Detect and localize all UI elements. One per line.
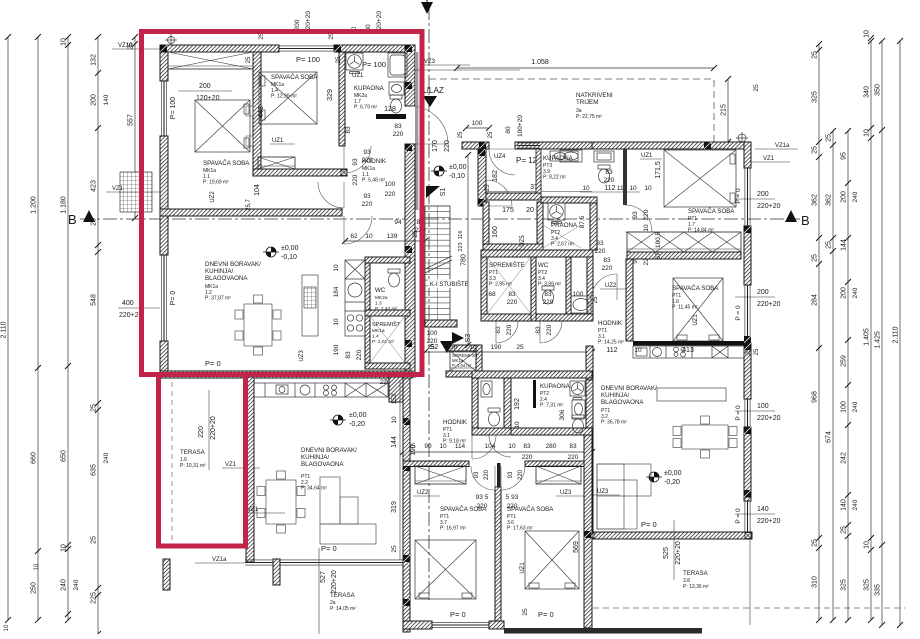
praona room: [590, 197, 597, 250]
svg-text:25: 25: [391, 545, 398, 553]
apt1 right exterior wall upper: [405, 45, 415, 106]
svg-text:S3: S3: [465, 334, 472, 343]
right dimension line col2a 362: [832, 131, 834, 620]
apt1 right exterior wall below entrance: [405, 144, 415, 377]
svg-text:200: 200: [841, 191, 848, 203]
svg-text:240: 240: [73, 579, 80, 590]
svg-text:220+20: 220+20: [675, 541, 682, 565]
bottom apt bottom wall left piece: [403, 621, 432, 629]
elevation marker apt2: [330, 415, 346, 425]
red highlight outline terrace: [159, 375, 246, 547]
bedroom divider wall bottom apt: [495, 487, 501, 628]
svg-text:25: 25: [754, 348, 760, 355]
svg-text:KUPAONA: KUPAONA: [540, 383, 571, 390]
stair label K-I STUBISTE: [428, 279, 474, 288]
stairwell treads: [425, 206, 450, 320]
svg-text:635: 635: [91, 464, 98, 476]
svg-text:284: 284: [812, 294, 819, 306]
svg-text:P= 0: P= 0: [450, 610, 466, 619]
left bedroom bed: [415, 540, 476, 599]
svg-text:25: 25: [91, 536, 98, 544]
svg-text:VZ1: VZ1: [225, 462, 237, 468]
apt1 entrance door opening arc: [410, 106, 448, 144]
svg-text:242: 242: [841, 452, 848, 464]
svg-text:220+20: 220+20: [757, 518, 781, 525]
svg-text:223: 223: [458, 242, 464, 251]
svg-text:WC: WC: [375, 287, 386, 294]
level survey symbol top-left: [165, 34, 177, 46]
washing machine apt1 bathroom: [346, 53, 363, 74]
svg-text:UZ3: UZ3: [560, 490, 572, 496]
svg-text:94: 94: [394, 219, 402, 226]
svg-text:220: 220: [352, 174, 359, 185]
svg-text:25: 25: [522, 608, 529, 616]
svg-text:310: 310: [812, 576, 819, 588]
svg-text:P = 0: P = 0: [735, 405, 742, 421]
svg-text:10: 10: [644, 185, 652, 192]
svg-text:220: 220: [522, 454, 533, 461]
bathroom bottom wall thick black: [376, 114, 406, 119]
elevation marker apt1 living: [263, 247, 279, 257]
svg-text:10: 10: [634, 347, 642, 354]
svg-text:10: 10: [439, 443, 447, 450]
svg-text:25: 25: [746, 348, 752, 355]
bottom apt bathroom bottom wall: [472, 428, 511, 435]
svg-text:557: 557: [128, 114, 135, 126]
red highlight outline main apartment: [142, 32, 423, 375]
wardrobe band bedroom2 apt1: [258, 157, 295, 169]
right building top wall segment 1: [462, 142, 489, 149]
svg-text:10: 10: [864, 30, 871, 38]
trijem dashed outline: [429, 79, 714, 142]
right wall window VZ1 upper: [745, 168, 750, 226]
svg-text:S1: S1: [440, 188, 447, 197]
svg-text:220: 220: [507, 503, 518, 510]
svg-text:VZ1: VZ1: [247, 507, 259, 513]
svg-text:525: 525: [663, 547, 670, 559]
bottom apt bathroom fixtures: [481, 381, 492, 397]
svg-text:UZ3: UZ3: [299, 350, 305, 362]
door arcs bottom apt bedrooms: [471, 466, 495, 490]
elevation marker right apt: [646, 472, 662, 482]
svg-text:280: 280: [546, 443, 557, 450]
door arcs hodnik bottom apt: [472, 435, 496, 459]
svg-text:20: 20: [526, 207, 534, 214]
bottom apt bedroom top wall left: [403, 461, 469, 467]
bottom apt bottom window left: [432, 622, 489, 627]
svg-text:-0,10: -0,10: [281, 254, 297, 261]
apt1 left exterior wall lower: [160, 341, 168, 377]
svg-text:25: 25: [336, 56, 342, 63]
svg-text:413: 413: [682, 347, 694, 354]
svg-text:83: 83: [394, 123, 402, 130]
svg-text:P= 100: P= 100: [170, 97, 177, 119]
svg-text:220: 220: [477, 503, 488, 510]
svg-text:93: 93: [352, 158, 359, 166]
svg-text:190: 190: [491, 344, 502, 351]
svg-text:UZ1: UZ1: [352, 73, 364, 79]
svg-text:200: 200: [841, 287, 848, 299]
svg-text:780: 780: [461, 254, 468, 266]
svg-text:140: 140: [757, 506, 769, 513]
svg-text:400: 400: [122, 300, 134, 307]
right dimension line col3 340/1.405: [870, 41, 872, 620]
lower bedroom left wall right-apt: [626, 259, 633, 341]
right dimension line col2 95/144/259/242: [847, 131, 849, 620]
svg-text:KUPAONA: KUPAONA: [354, 85, 385, 92]
svg-text:140: 140: [841, 499, 848, 511]
wc spremiste divider apt1: [365, 310, 410, 316]
svg-text:10: 10: [61, 38, 68, 46]
svg-text:PRAONA: PRAONA: [551, 222, 578, 229]
svg-text:1.425: 1.425: [875, 331, 882, 349]
svg-text:112: 112: [604, 185, 615, 192]
top dim line 1.058 trijem: [457, 67, 714, 69]
svg-text:UZ3: UZ3: [597, 489, 609, 495]
spremiste bottom wall apt1: [365, 363, 410, 369]
svg-text:80: 80: [505, 126, 512, 134]
svg-text:200: 200: [757, 191, 769, 198]
svg-text:10: 10: [864, 129, 871, 137]
svg-text:650: 650: [61, 450, 68, 462]
svg-text:VZ1a: VZ1a: [775, 143, 790, 149]
living room top wall: [160, 209, 342, 216]
bottom apt right wall: [584, 435, 592, 628]
toilet apt1 bathroom: [390, 95, 402, 113]
svg-text:220: 220: [507, 299, 518, 306]
right building top wall segment 3: [592, 142, 751, 149]
svg-text:1.180: 1.180: [61, 196, 68, 214]
svg-text:220: 220: [602, 265, 613, 272]
stair break line diagonal: [423, 256, 452, 274]
svg-text:100: 100: [757, 403, 769, 410]
svg-text:VZ3: VZ3: [424, 59, 436, 65]
horizontal wall under closet and praona: [481, 250, 593, 257]
wardrobe left bedroom: [415, 466, 466, 484]
svg-text:329: 329: [327, 89, 334, 101]
svg-text:220+20: 220+20: [210, 416, 217, 440]
svg-text:220: 220: [356, 349, 363, 360]
trellis grid block outside left wall: [120, 172, 152, 212]
svg-text:104: 104: [485, 443, 496, 450]
svg-text:P= 100: P= 100: [296, 55, 320, 64]
apt1 top wall window P=100: [279, 46, 334, 51]
axis line vertical dash-dot through entrance: [428, 6, 430, 600]
left dimension line 132/200/423/548/635/225: [97, 37, 99, 634]
closet room walls: [483, 202, 489, 250]
svg-text:2.110: 2.110: [893, 326, 900, 343]
dim 100 above entrance: [466, 127, 489, 129]
svg-text:240: 240: [852, 191, 859, 202]
bottom apt left wall: [403, 378, 410, 632]
svg-text:25: 25: [91, 404, 98, 412]
section marker B left: [83, 210, 95, 222]
svg-text:220: 220: [595, 248, 606, 255]
svg-text:83: 83: [605, 169, 613, 176]
svg-text:423: 423: [91, 180, 98, 192]
left dimension line 1.200/660/250: [37, 37, 39, 620]
svg-text:25: 25: [412, 230, 419, 238]
svg-text:190: 190: [410, 444, 417, 455]
svg-text:VZ1a: VZ1a: [212, 557, 227, 563]
svg-text:220+20: 220+20: [757, 301, 781, 308]
apt1 left exterior wall middle: [160, 136, 168, 255]
apt1 top wall corner cap: [160, 45, 167, 52]
svg-text:569: 569: [573, 541, 580, 553]
svg-text:67: 67: [655, 252, 662, 260]
svg-text:220: 220: [643, 209, 650, 220]
svg-text:P = 0: P = 0: [735, 305, 742, 321]
svg-text:184: 184: [333, 286, 340, 297]
svg-text:192: 192: [514, 398, 521, 410]
svg-text:144: 144: [391, 436, 398, 448]
svg-text:100: 100: [427, 330, 438, 337]
svg-text:240: 240: [852, 287, 859, 298]
steps shelf right living: [597, 464, 651, 529]
terrace apt1 dashed left edge: [171, 382, 173, 540]
apt2 terrace outline thin: [318, 548, 320, 634]
svg-text:P= 0: P= 0: [641, 520, 657, 529]
terrace apt1 right wall hatched: [246, 377, 254, 562]
svg-text:171,5: 171,5: [655, 161, 662, 179]
svg-text:220: 220: [604, 177, 615, 184]
svg-text:25: 25: [246, 56, 252, 63]
svg-text:UZ4: UZ4: [494, 154, 506, 160]
svg-text:2.110: 2.110: [1, 321, 8, 338]
left wall right-building upper: [478, 149, 486, 206]
svg-text:325: 325: [841, 579, 848, 591]
kupaona PT3 fixtures bath: [550, 151, 614, 162]
svg-text:362: 362: [812, 194, 819, 206]
svg-text:K-I STUBIŠTE: K-I STUBIŠTE: [430, 281, 469, 288]
svg-text:144: 144: [841, 239, 848, 251]
svg-text:25: 25: [826, 241, 833, 249]
svg-text:240: 240: [103, 452, 110, 463]
svg-text:5 93: 5 93: [506, 494, 519, 501]
svg-text:-0,10: -0,10: [449, 173, 465, 180]
svg-text:250: 250: [31, 582, 38, 594]
dim line 62/10/139 above kitchen: [345, 240, 425, 242]
svg-text:-0,20: -0,20: [349, 421, 365, 428]
svg-text:259: 259: [841, 355, 848, 367]
left wall door gap arc UZ4 inner: [486, 180, 512, 206]
svg-text:10: 10: [643, 224, 650, 232]
svg-text:83: 83: [345, 351, 352, 359]
svg-text:83: 83: [544, 291, 552, 298]
wall above closet 175/20: [486, 193, 541, 200]
svg-text:220: 220: [198, 426, 205, 438]
svg-text:220: 220: [506, 324, 513, 335]
apt2 bottom wall pillar left: [163, 559, 170, 590]
dim line 25/90/10/114/104... y452: [403, 451, 592, 453]
svg-text:340: 340: [864, 86, 871, 98]
dining table right apt: [673, 416, 737, 458]
svg-text:P= 0: P= 0: [205, 359, 221, 368]
svg-text:10: 10: [34, 563, 40, 570]
kitchen counter right apt: [633, 346, 744, 358]
svg-text:306: 306: [559, 409, 566, 420]
svg-text:220: 220: [385, 191, 396, 198]
svg-text:VZ1: VZ1: [763, 156, 775, 162]
right living room left wall: [586, 346, 593, 380]
wc left wall apt1: [365, 263, 370, 369]
svg-text:93: 93: [363, 193, 371, 200]
svg-text:P= 100: P= 100: [362, 60, 386, 69]
svg-text:93: 93: [508, 471, 514, 478]
right dimension line col4 350/1.425/335: [881, 41, 883, 625]
bed top bedroom right apt: [664, 150, 736, 207]
svg-text:25: 25: [485, 184, 491, 191]
svg-text:HODNIK: HODNIK: [598, 320, 623, 327]
svg-text:100+20: 100+20: [517, 115, 524, 137]
kupaona PT2 fixtures: [570, 381, 585, 400]
kitchen island apt1: [302, 275, 318, 336]
svg-text:25: 25: [841, 526, 848, 534]
svg-text:10: 10: [508, 443, 516, 450]
svg-text:25: 25: [826, 134, 833, 142]
svg-text:87,5: 87,5: [579, 215, 586, 228]
apt1 right wall gray insulation band: [415, 52, 418, 210]
svg-text:B: B: [68, 212, 77, 227]
bedroom divider wall apt1: [253, 52, 261, 176]
svg-text:527: 527: [320, 571, 327, 583]
svg-text:152: 152: [391, 393, 398, 404]
svg-text:62: 62: [350, 233, 358, 240]
elevation marker entrance: [431, 166, 447, 176]
apt1 left wall window P=100 vertical: [161, 81, 166, 136]
section line B-B horizontal dash-dot: [80, 218, 800, 220]
svg-text:25,7: 25,7: [246, 199, 252, 211]
dashed terrace line continues right: [744, 607, 905, 609]
terrace right edge thin line: [749, 539, 751, 625]
right exterior wall pieces: [744, 142, 751, 168]
svg-text:362: 362: [826, 194, 833, 206]
svg-text:220: 220: [393, 131, 404, 138]
svg-text:220: 220: [518, 469, 524, 480]
svg-text:P= 0: P= 0: [538, 610, 554, 619]
svg-text:VZ1: VZ1: [112, 186, 124, 192]
svg-text:674: 674: [826, 431, 833, 443]
vent squares on apt1 right wall: [405, 45, 412, 52]
bathroom left wall: [339, 52, 345, 146]
svg-text:220: 220: [543, 299, 554, 306]
apt2 bottom wall pillar middle: [273, 559, 280, 585]
svg-text:10: 10: [629, 185, 637, 192]
bottom apt bedroom top wall right: [525, 461, 592, 467]
svg-text:HODNIK: HODNIK: [443, 419, 468, 426]
bottom apt hodnik-bath top wall: [472, 371, 592, 378]
right wall window 100: [745, 399, 750, 427]
right bedroom bed: [525, 531, 579, 589]
svg-text:83: 83: [508, 291, 516, 298]
svg-text:220+20: 220+20: [331, 570, 338, 594]
section marker B right: [785, 210, 797, 222]
svg-text:±0,00: ±0,00: [281, 245, 299, 252]
bottom apt bathroom box left wall: [472, 378, 478, 435]
svg-text:132: 132: [91, 54, 98, 66]
wall under bedroomB: [633, 341, 744, 346]
svg-text:UZ2: UZ2: [210, 191, 216, 203]
svg-text:220+20: 220+20: [757, 415, 781, 422]
top wall window P=120 gap: [517, 143, 540, 148]
svg-text:25: 25: [427, 344, 435, 351]
bottom dark band: [504, 628, 702, 634]
dining table apt1: [235, 295, 281, 355]
svg-text:SPAVAČA SOBA: SPAVAČA SOBA: [672, 285, 719, 292]
right apt bottom wall: [588, 532, 752, 539]
spremiste wc divider 2: [566, 257, 571, 314]
svg-text:83: 83: [535, 326, 542, 334]
svg-text:93 5: 93 5: [476, 494, 489, 501]
spremiste door arc apt1: [384, 369, 410, 395]
svg-text:UZ2: UZ2: [417, 490, 429, 496]
svg-text:25: 25: [458, 131, 464, 138]
svg-text:93: 93: [474, 471, 480, 478]
S3 marker: [452, 332, 464, 344]
svg-text:SPAVAČA SOBA: SPAVAČA SOBA: [271, 74, 318, 81]
door arcs below spremiste wc: [496, 321, 518, 343]
svg-text:-0,20: -0,20: [664, 479, 680, 486]
svg-text:10: 10: [514, 421, 521, 429]
svg-text:140: 140: [103, 94, 110, 105]
bottom apt bathroom box right wall: [504, 378, 511, 435]
svg-text:±0,00: ±0,00: [349, 412, 367, 419]
svg-text:83: 83: [603, 257, 611, 264]
svg-text:25: 25: [812, 51, 819, 59]
spremiste wc block outer walls: [481, 257, 487, 321]
apt1 bottom wall (under red line): [160, 371, 412, 378]
svg-text:335: 335: [875, 584, 882, 596]
spremiste wc divider 1: [531, 257, 536, 321]
svg-text:112: 112: [606, 347, 617, 354]
svg-text:10: 10: [333, 264, 340, 272]
hodnik door arc to bedroom1: [318, 182, 344, 208]
S1 marker: [426, 186, 440, 198]
apt1 left exterior wall upper: [160, 52, 168, 81]
apt2 kitchen counter band: [251, 383, 388, 397]
bed bedroom1 nightstand: [246, 106, 253, 116]
left dimension line 2.110: [7, 37, 9, 620]
apt1 top exterior wall right segment: [334, 45, 412, 52]
right dimension line 325/362/284/968/310: [818, 44, 820, 620]
svg-text:10: 10: [391, 416, 398, 424]
left dimension line 1.180/650/240: [67, 37, 69, 620]
svg-text:25: 25: [812, 539, 819, 547]
svg-text:1.405: 1.405: [864, 328, 871, 346]
wardrobe right bedroom: [536, 466, 581, 484]
svg-text:190: 190: [333, 344, 340, 355]
svg-text:139: 139: [387, 233, 398, 240]
svg-text:220: 220: [362, 157, 373, 164]
left dimension line short 25/557: [134, 37, 136, 218]
svg-text:220: 220: [362, 201, 373, 208]
right wall window 140: [745, 497, 750, 536]
kitchen appliance strip apt1: [345, 260, 365, 336]
svg-text:68: 68: [488, 291, 496, 298]
entrance door UZ4 gap arc: [489, 149, 515, 175]
svg-text:128: 128: [384, 106, 396, 113]
svg-text:116: 116: [458, 231, 464, 240]
bed bedroom1 apt1: [195, 100, 250, 152]
svg-text:114: 114: [455, 443, 466, 450]
apt1 left wall window P=0 vertical: [161, 255, 166, 341]
svg-text:220: 220: [546, 324, 553, 335]
svg-text:P= 0: P= 0: [170, 291, 177, 306]
right dimension line 2.110 outer: [899, 41, 901, 625]
svg-text:200: 200: [294, 19, 301, 30]
right wall window VZ1 lower: [745, 285, 750, 343]
bathroom door arc: [344, 146, 371, 173]
